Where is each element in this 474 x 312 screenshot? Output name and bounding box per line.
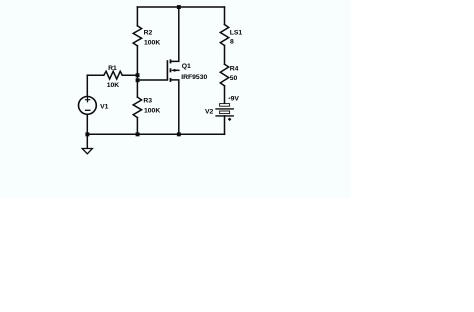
resistor LS1 <box>220 25 228 46</box>
node R1 / divider <box>136 73 140 77</box>
svg-text:R4: R4 <box>230 66 239 73</box>
svg-text:9V: 9V <box>231 96 240 103</box>
V1 minus sign <box>85 109 91 111</box>
wire Q1 drain vertical <box>171 80 179 134</box>
node R3 / bottom rail <box>136 132 140 136</box>
wire R1 right lead <box>122 74 137 76</box>
wire top rail <box>137 6 224 8</box>
svg-text:100K: 100K <box>144 40 160 47</box>
wire LS1 to R4 <box>224 46 226 65</box>
wire LS1 top lead <box>224 7 226 25</box>
svg-text:R3: R3 <box>143 97 152 104</box>
resistor R2 <box>133 26 141 46</box>
svg-text:LS1: LS1 <box>230 30 243 37</box>
Q1 gate bar <box>166 60 168 80</box>
Q1 channel segment source <box>170 59 172 63</box>
labels <box>100 29 242 115</box>
wire Q1 source vertical <box>171 7 179 61</box>
V2 plate long 2 <box>215 115 234 117</box>
Q1 channel segment body <box>170 68 172 72</box>
V2 plus mark <box>228 118 231 120</box>
V2 plate short 1 <box>220 104 230 107</box>
svg-text:V2: V2 <box>205 108 214 115</box>
resistor R4 <box>220 64 228 86</box>
node Q1 drain / bottom rail <box>177 132 181 136</box>
node gate / divider <box>136 78 140 82</box>
wire R4 to battery <box>224 86 226 104</box>
wire V1 bottom <box>86 115 88 135</box>
wire R2 bottom to R3 top <box>136 46 138 97</box>
voltage source V1 <box>79 97 97 115</box>
V2 plate short 2 <box>220 111 230 114</box>
svg-text:IRF9530: IRF9530 <box>181 74 207 81</box>
wire bottom rail <box>87 133 224 135</box>
svg-text:Q1: Q1 <box>182 63 191 70</box>
resistor R1 <box>104 71 123 79</box>
wire R1 left lead <box>87 74 104 76</box>
node top rail / Q1 source <box>177 5 181 9</box>
transistor Q1 IRF9530 <box>167 59 170 82</box>
V1 plus sign <box>85 97 90 102</box>
svg-text:R2: R2 <box>144 29 153 36</box>
Q1 body arrow <box>171 69 176 72</box>
battery V2 <box>215 98 234 121</box>
wire gate <box>137 79 167 81</box>
svg-text:V1: V1 <box>100 104 109 111</box>
wire V1 top to R1 <box>86 75 88 96</box>
svg-text:R1: R1 <box>108 65 117 72</box>
wire battery bottom <box>224 116 226 134</box>
wire ground lead <box>86 134 88 148</box>
Q1 channel segment drain <box>170 78 172 82</box>
V2 minus tick of -9V <box>229 97 231 99</box>
resistor R3 <box>133 97 141 118</box>
wire Q1 body lead <box>175 69 179 71</box>
wire R3 bottom lead <box>136 118 138 135</box>
svg-text:50: 50 <box>230 75 238 82</box>
junction dots <box>85 5 180 136</box>
wire R2 top lead <box>136 7 138 26</box>
ground <box>82 149 92 154</box>
svg-text:8: 8 <box>230 39 234 46</box>
V2 plate long 1 <box>215 108 234 110</box>
schematic canvas background <box>0 0 351 198</box>
svg-text:10K: 10K <box>107 82 120 89</box>
node V1 / ground <box>85 132 89 136</box>
svg-text:100K: 100K <box>144 108 160 115</box>
